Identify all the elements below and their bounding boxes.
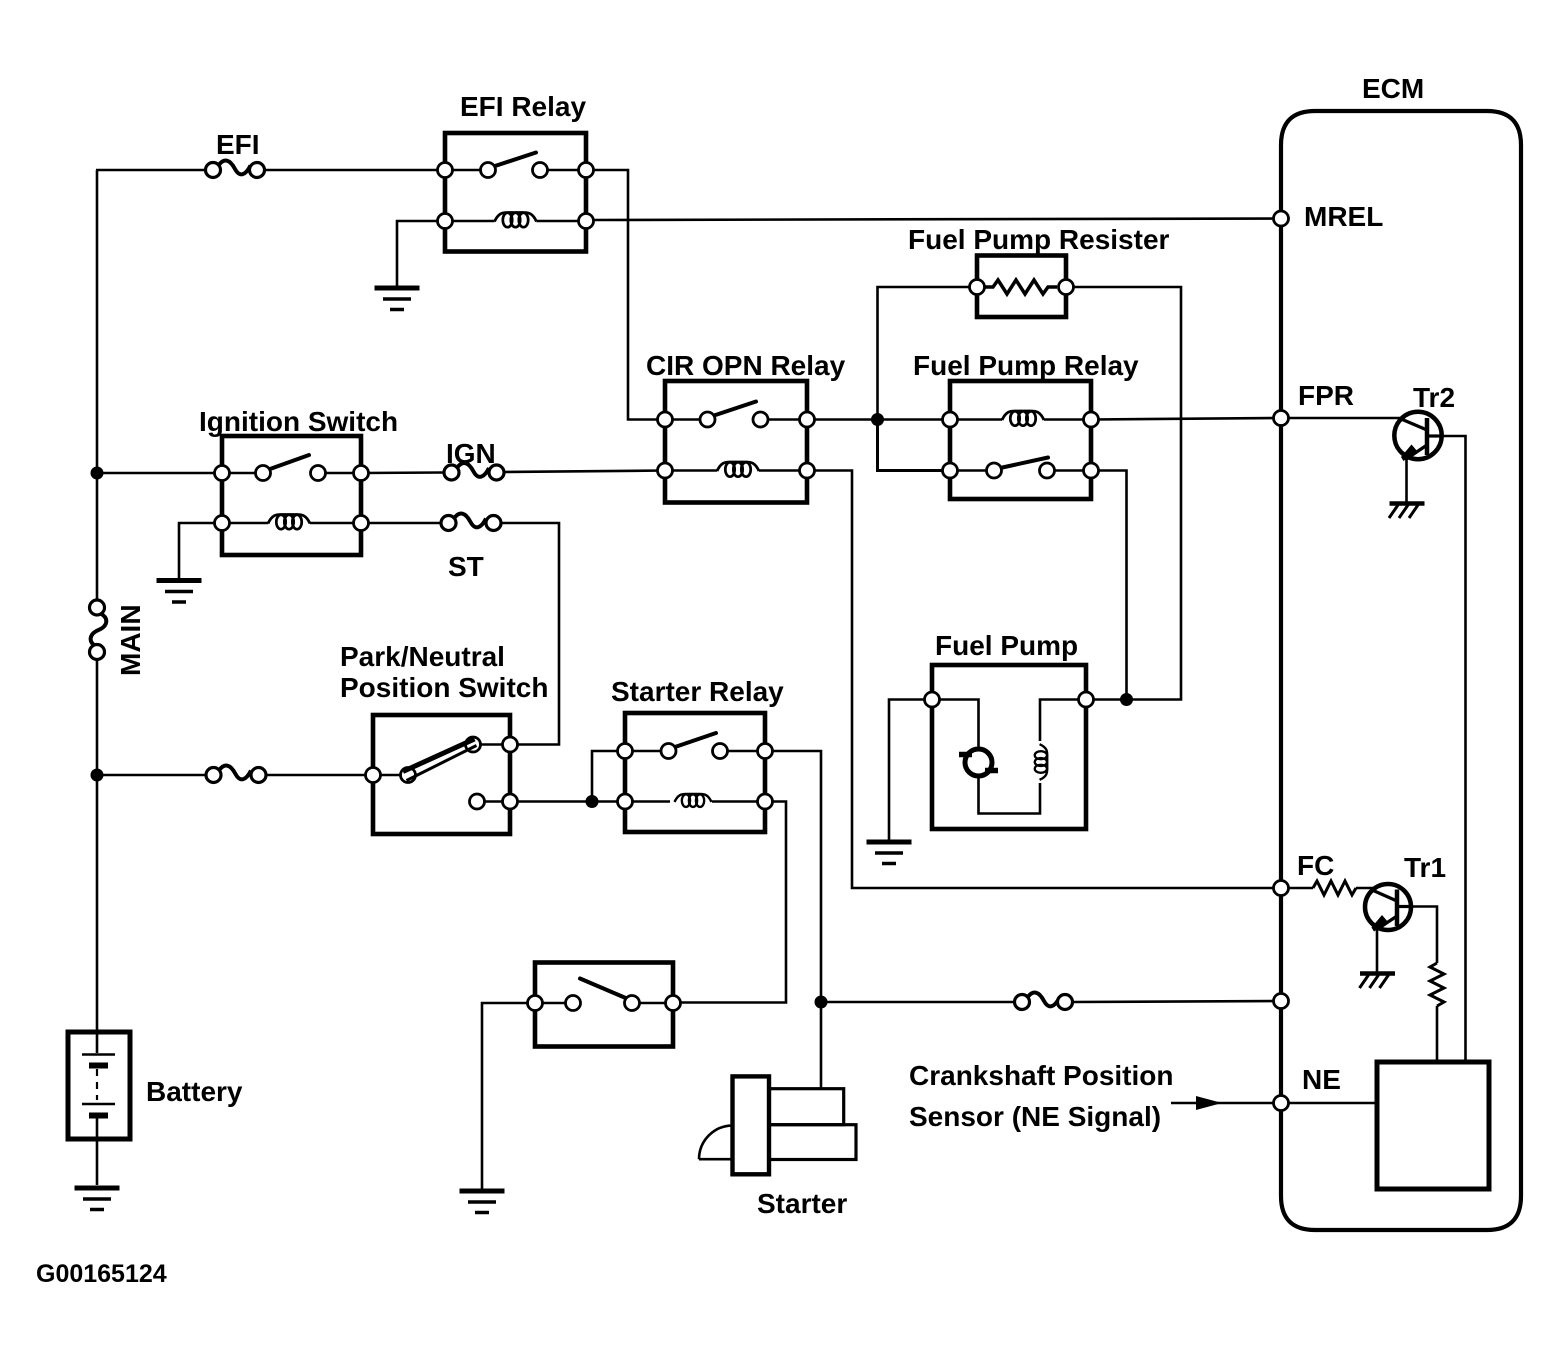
switch Park/Neutral Position Switch: box bbox=[373, 715, 510, 834]
node: junction rail/park-neutral feed bbox=[91, 769, 104, 782]
wire: Tr2 collector right and down to NE block bbox=[1441, 436, 1466, 1062]
clutch switch blade bbox=[580, 979, 628, 1000]
switch (clutch start / unlabeled): box bbox=[535, 963, 673, 1047]
ECM pin MREL bbox=[1274, 211, 1289, 226]
wire: ECM FC pin to resistor bbox=[1281, 887, 1313, 890]
svg-text:IGN: IGN bbox=[446, 438, 496, 469]
node: junction starter feed bbox=[815, 996, 828, 1009]
wire: EFI relay switch output right, down to CIR OPN relay input bbox=[586, 170, 665, 420]
CIR OPN coil row bbox=[665, 469, 717, 472]
wire: rail to lower fuse bbox=[97, 774, 206, 777]
fuse EFI bbox=[206, 161, 265, 178]
wire: clutch switch left pin to ground bbox=[482, 1003, 535, 1189]
starter relay blade bbox=[675, 733, 716, 747]
starter relay coil row bbox=[625, 800, 670, 803]
starter Starter: motor symbol bbox=[699, 1076, 856, 1174]
svg-text:Battery: Battery bbox=[146, 1076, 243, 1107]
svg-text:ECM: ECM bbox=[1362, 73, 1424, 104]
fuel pump internal wiring bbox=[940, 700, 1086, 814]
svg-text:Sensor (NE Signal): Sensor (NE Signal) bbox=[909, 1101, 1161, 1132]
relay EFI Relay: box bbox=[445, 133, 586, 252]
fuse IGN bbox=[444, 463, 504, 480]
node: junction CIR OPN output / resister branch bbox=[871, 413, 884, 426]
clutch switch row stubs bbox=[535, 1002, 573, 1005]
ground (battery) bbox=[75, 1188, 120, 1210]
svg-text:Starter: Starter bbox=[757, 1188, 847, 1219]
svg-text:FC: FC bbox=[1297, 850, 1334, 881]
wire: node down to fuel pump relay switch input bbox=[878, 420, 951, 471]
wire: top feed from rail to EFI fuse bbox=[96, 169, 205, 172]
wire: crankshaft position sensor arrow line bbox=[1171, 1102, 1274, 1105]
fuel pump relay switch row stubs bbox=[950, 469, 994, 472]
wire: ECM FPR pin to Tr2 base bbox=[1281, 417, 1403, 420]
wire: fuel pump relay coil to ECM FPR pin bbox=[1091, 418, 1281, 420]
motor Fuel Pump: box bbox=[932, 665, 1086, 829]
wire: CIR OPN relay coil right, down, right to ECM FC pin bbox=[807, 471, 1281, 889]
wire: resistor to Tr1 base bbox=[1356, 887, 1376, 890]
wire: ST fuse down to park/neutral switch upper pin bbox=[501, 523, 559, 745]
fuel pump pins bbox=[925, 692, 940, 707]
battery Battery: box bbox=[68, 1032, 130, 1139]
svg-text:Fuel Pump Resister: Fuel Pump Resister bbox=[908, 224, 1170, 255]
chassis ground (Tr2 emitter) bbox=[1389, 504, 1425, 519]
transistor Tr1 bbox=[1365, 884, 1411, 932]
svg-text:G00165124: G00165124 bbox=[36, 1260, 167, 1288]
NE signal block bbox=[1377, 1062, 1489, 1189]
svg-text:Tr2: Tr2 bbox=[1413, 382, 1455, 413]
ignition coil row bbox=[222, 522, 268, 525]
svg-text:EFI Relay: EFI Relay bbox=[460, 91, 586, 122]
fuel pump resister pins bbox=[970, 280, 985, 295]
EFI relay coil bbox=[495, 213, 537, 228]
svg-text:Starter Relay: Starter Relay bbox=[611, 676, 784, 707]
ignition switch pins bbox=[215, 466, 230, 481]
arrow head (NE signal) bbox=[1196, 1096, 1222, 1110]
svg-text:Park/Neutral: Park/Neutral bbox=[340, 641, 505, 672]
CIR OPN relay coil bbox=[717, 462, 759, 477]
relay CIR OPN Relay: box bbox=[665, 381, 807, 503]
CIR OPN switch blade bbox=[714, 402, 756, 416]
node: junction at fuel pump bbox=[1120, 693, 1133, 706]
wire: node up to starter relay switch input bbox=[592, 751, 625, 802]
ECM box (rounded) bbox=[1281, 111, 1521, 1230]
fuel pump relay coil row bbox=[950, 418, 1002, 421]
svg-text:EFI: EFI bbox=[216, 129, 260, 160]
fuel pump relay coil bbox=[1002, 411, 1044, 426]
wire: EFI relay coil to ground bbox=[397, 221, 445, 286]
svg-text:MAIN: MAIN bbox=[115, 604, 146, 676]
ECM pin NE bbox=[1274, 1096, 1289, 1111]
wire: starter node to STA fuse bbox=[821, 1001, 1014, 1004]
starter relay coil bbox=[675, 794, 712, 807]
relay Starter Relay: box bbox=[625, 713, 765, 832]
ground (clutch switch) bbox=[460, 1191, 505, 1213]
fuse MAIN (vertical, on left rail) bbox=[90, 600, 107, 660]
wire: battery positive rail (left), upper segment bbox=[96, 170, 99, 600]
starter relay switch row stubs bbox=[625, 750, 669, 753]
wire: park/neutral lower output to starter relay node bbox=[510, 800, 625, 803]
relay Fuel Pump Relay: box bbox=[950, 381, 1091, 499]
wire: node down to starter bbox=[820, 1002, 823, 1089]
ground (ignition switch) bbox=[157, 581, 202, 603]
svg-text:FPR: FPR bbox=[1298, 380, 1354, 411]
wire: fuel pump left pin to ground bbox=[889, 700, 932, 841]
svg-text:Ignition Switch: Ignition Switch bbox=[199, 406, 398, 437]
ground (EFI relay coil) bbox=[375, 288, 420, 310]
clutch switch pins bbox=[528, 996, 543, 1011]
switch Ignition Switch: box bbox=[222, 436, 361, 555]
park/neutral left stub bbox=[373, 774, 408, 777]
fuel pump motor symbol bbox=[959, 749, 998, 776]
park/neutral pins bbox=[366, 768, 381, 783]
wire: ignition switch IG output to IGN fuse bbox=[361, 471, 444, 474]
starter relay pins bbox=[618, 744, 633, 759]
resistor (FC line) bbox=[1313, 881, 1356, 895]
park/neutral upper-right stub bbox=[473, 743, 510, 746]
svg-text:Fuel Pump Relay: Fuel Pump Relay bbox=[913, 350, 1139, 381]
battery internals bbox=[82, 1032, 115, 1185]
wire: node up to fuel pump resister bbox=[878, 287, 978, 420]
EFI relay switch blade bbox=[495, 153, 536, 167]
CIR OPN switch row stubs bbox=[665, 418, 707, 421]
fuse (unlabeled, STA line) bbox=[1015, 993, 1073, 1010]
wire: rail to ignition switch bbox=[97, 472, 222, 475]
wire: starter relay coil right, down, left to clutch switch bbox=[673, 802, 786, 1003]
node: junction rail/ignition feed bbox=[91, 467, 104, 480]
wire: EFI relay coil to ECM MREL pin bbox=[586, 219, 1281, 221]
wire: STA fuse to ECM pin bbox=[1073, 1001, 1282, 1002]
park/neutral blade (double line wedge) bbox=[403, 739, 475, 772]
fuel pump relay pins bbox=[943, 412, 958, 427]
svg-text:NE: NE bbox=[1302, 1064, 1341, 1095]
wire: fuel pump resister output right and down to pump node bbox=[1065, 287, 1181, 700]
ECM pin FPR bbox=[1274, 411, 1289, 426]
svg-text:Fuel Pump: Fuel Pump bbox=[935, 630, 1078, 661]
park/neutral lower-right stub bbox=[477, 800, 510, 803]
fuel pump resister zigzag bbox=[985, 280, 1057, 294]
wire: ECM NE pin to NE block bbox=[1281, 1102, 1377, 1105]
wire: EFI fuse to EFI relay bbox=[265, 169, 445, 172]
resistor Fuel Pump Resister: box bbox=[977, 256, 1066, 318]
node: junction at starter relay input bbox=[586, 795, 599, 808]
svg-text:MREL: MREL bbox=[1304, 201, 1383, 232]
svg-text:Position Switch: Position Switch bbox=[340, 672, 548, 703]
wire: fuse to park/neutral switch left pin bbox=[266, 774, 373, 777]
wire: IGN fuse to CIR OPN relay coil bbox=[504, 471, 665, 473]
fuel pump relay blade bbox=[1000, 458, 1048, 469]
ignition switch blade bbox=[270, 455, 309, 469]
wire: fuel pump right pin to node bbox=[1086, 698, 1127, 701]
wire: resistor down to NE block bbox=[1436, 1006, 1439, 1062]
fuse (unlabeled, park/neutral feed) bbox=[206, 766, 266, 783]
EFI relay switch row stubs bbox=[445, 169, 488, 172]
wire: battery positive rail (left), lower segment bbox=[96, 660, 99, 1033]
fuse ST bbox=[441, 514, 501, 531]
CIR OPN relay pins bbox=[658, 412, 673, 427]
wire: ignition ST output to ST fuse bbox=[361, 522, 441, 525]
svg-text:Tr1: Tr1 bbox=[1404, 852, 1446, 883]
wire: CIR OPN relay switch output to fuel pump relay coil bbox=[807, 418, 950, 421]
EFI relay pins bbox=[438, 163, 453, 178]
fuel pump internal coil bbox=[1035, 744, 1047, 780]
wire: Tr1 emitter to chassis ground bbox=[1376, 928, 1379, 972]
svg-text:Crankshaft Position: Crankshaft Position bbox=[909, 1060, 1173, 1091]
ECM pin FC bbox=[1274, 881, 1289, 896]
svg-text:ST: ST bbox=[448, 551, 484, 582]
ignition switch coil bbox=[268, 515, 310, 530]
ground (fuel pump) bbox=[867, 842, 912, 864]
transistor Tr2 bbox=[1394, 412, 1442, 461]
chassis ground (Tr1 emitter) bbox=[1360, 974, 1396, 989]
wire: Tr1 collector right and down to resistor bbox=[1410, 907, 1437, 964]
wire: fuel pump relay switch output down to pump node bbox=[1091, 471, 1127, 700]
EFI relay coil row bbox=[445, 220, 495, 223]
ignition switch row stubs bbox=[222, 472, 263, 475]
ECM pin STA bbox=[1274, 994, 1289, 1009]
wire: starter relay switch output right and down bbox=[765, 751, 821, 1002]
wire: Tr2 emitter to chassis ground bbox=[1405, 458, 1408, 502]
wire: ignition switch coil to ground bbox=[179, 523, 222, 578]
svg-text:CIR OPN Relay: CIR OPN Relay bbox=[646, 350, 846, 381]
resistor (vertical, above NE block) bbox=[1430, 963, 1444, 1006]
